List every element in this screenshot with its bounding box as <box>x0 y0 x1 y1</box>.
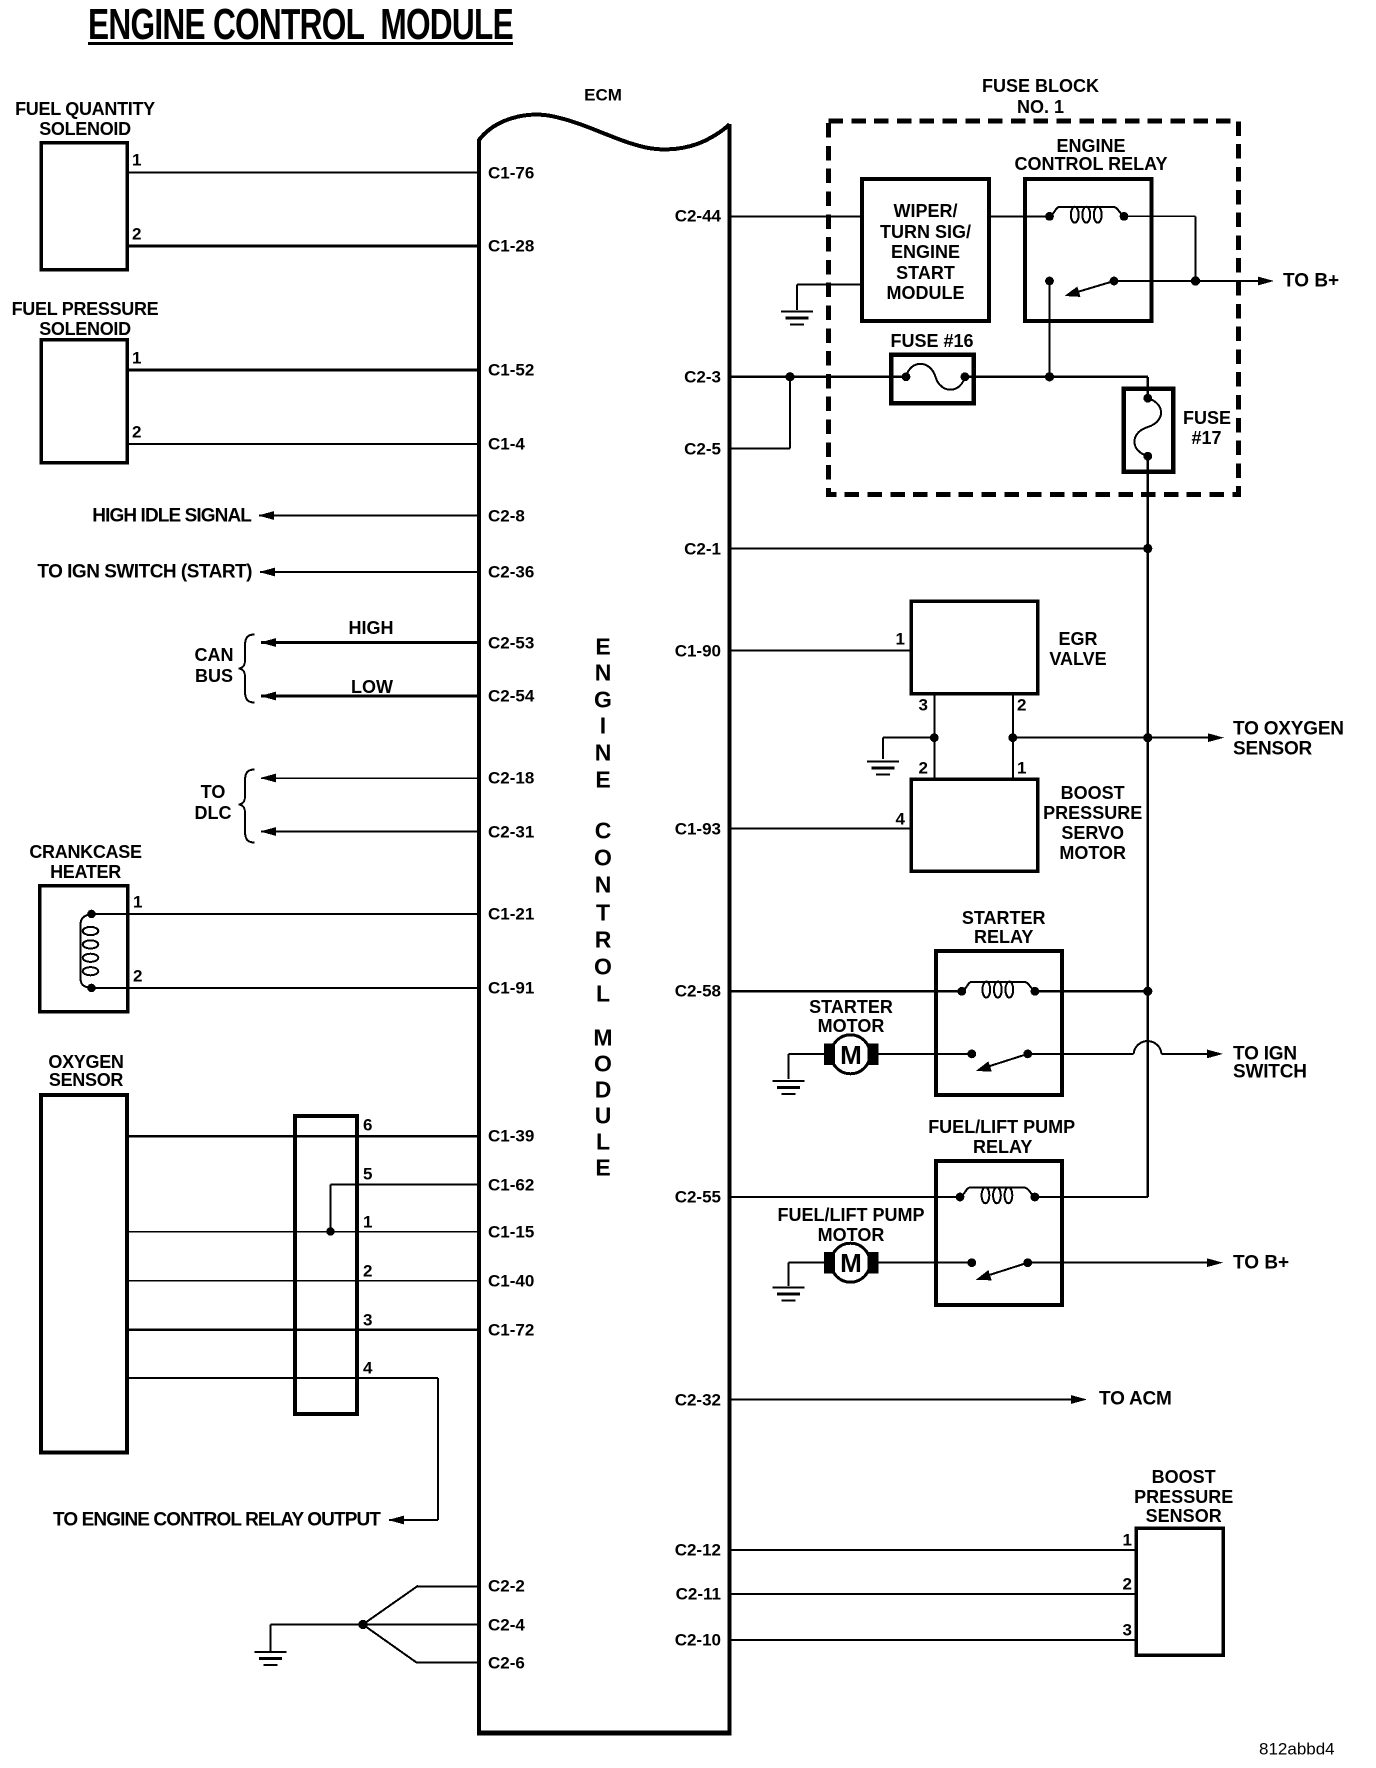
pin 1 label oxygen connector <box>363 1213 372 1230</box>
vertical text ENGINE CONTROL MODULE <box>595 635 610 658</box>
junction dot fuse wire / relay switch <box>1045 372 1054 381</box>
label FUEL PRESSURE SOLENOID <box>12 300 159 318</box>
wire C2-32 to ACM <box>732 1398 1074 1400</box>
wire C1-76 to fuel quantity solenoid pin 1 <box>127 172 477 174</box>
label FUEL/LIFT PUMP RELAY <box>928 1118 1075 1136</box>
ground symbol bottom left <box>255 1651 287 1653</box>
wire C1-21 to crankcase heater pin 1 <box>92 913 478 915</box>
wire coil to TO B+ junction <box>1124 215 1196 217</box>
ECM pin label C2-12 <box>675 1542 721 1559</box>
label STARTER RELAY <box>962 909 1046 927</box>
arrowhead TO OXYGEN SENSOR <box>1208 733 1224 742</box>
engine control relay box <box>1025 179 1152 321</box>
wire C2-8 high idle signal <box>259 515 477 517</box>
ground symbol EGR <box>867 760 899 762</box>
wiper module ground wire <box>797 283 862 285</box>
fuel pump relay coil <box>960 1188 1035 1198</box>
wire pump coil to trunk corner <box>1035 1196 1148 1198</box>
ECM pin label C2-11 <box>676 1586 721 1603</box>
oxygen sensor box <box>41 1095 127 1453</box>
label OXYGEN SENSOR <box>48 1053 123 1071</box>
pin 1 label fuel quantity solenoid <box>132 152 141 169</box>
label ENGINE CONTROL RELAY <box>1056 137 1125 155</box>
label TO IGN SWITCH <box>1233 1044 1297 1063</box>
pin 4 label servo <box>896 811 905 828</box>
wire C2-31 to DLC <box>261 830 477 832</box>
arrowhead TO B+ <box>1258 277 1274 286</box>
brace CAN bus <box>239 635 255 703</box>
label CRANKCASE HEATER <box>29 843 141 861</box>
ECM pin label C2-18 <box>488 770 534 787</box>
label HIGH IDLE SIGNAL <box>92 506 251 525</box>
pin 6 label oxygen connector <box>363 1117 372 1134</box>
pin 1 label servo <box>1017 760 1026 777</box>
pin 3 label oxygen connector <box>363 1311 372 1328</box>
wire C2-2 <box>417 1585 477 1587</box>
junction dot oxygen pin1/pin5 <box>326 1227 335 1236</box>
EGR pin 2 wire <box>1012 694 1014 780</box>
arrowhead TO B+ lower <box>1207 1258 1223 1267</box>
ECM pin label C2-32 <box>675 1391 721 1408</box>
wire starter motor to switch <box>879 1053 972 1055</box>
wire C1-40 oxygen pin 2 <box>127 1280 477 1282</box>
crankcase heater box <box>40 886 128 1012</box>
ECM pin label C1-90 <box>675 642 721 659</box>
ECM pin label C2-2 <box>488 1578 525 1595</box>
wire C1-62 oxygen pin 5 <box>331 1184 478 1186</box>
junction dot EGR pin3 <box>930 733 939 742</box>
label LOW (CAN) <box>351 678 393 696</box>
wire C2-18 to DLC <box>261 777 477 779</box>
ECM pin label C1-4 <box>488 436 525 453</box>
label WIPER/TURN SIG/ENGINE START MODULE <box>893 202 957 220</box>
arrowhead TO ACM <box>1071 1395 1087 1404</box>
oxygen sensor connector box <box>295 1116 357 1414</box>
label FUSE #16 <box>890 332 973 350</box>
arrowhead TO IGN SWITCH <box>1207 1050 1223 1059</box>
wire starter switch to ign switch with hop <box>1028 1053 1134 1055</box>
ECM pin label C2-3 <box>684 368 721 385</box>
wire C1-93 to servo pin 4 <box>732 827 912 829</box>
fuse #16 element <box>906 364 965 390</box>
brace TO DLC <box>239 770 255 843</box>
label TO OXYGEN SENSOR <box>1233 720 1344 739</box>
label TO ENGINE CONTROL RELAY OUTPUT <box>53 1511 380 1530</box>
pin 4 label oxygen connector <box>363 1360 372 1377</box>
ECM pin label C1-21 <box>488 906 534 923</box>
label TO ACM <box>1099 1390 1172 1409</box>
ECM pin label C1-91 <box>488 980 534 997</box>
ground symbol starter motor <box>773 1080 805 1082</box>
ECM module left edge <box>477 139 481 1733</box>
wire C1-91 to crankcase heater pin 2 <box>92 987 478 989</box>
EGR valve box <box>911 601 1038 694</box>
label BOOST PRESSURE SENSOR <box>1152 1468 1216 1486</box>
wire C2-58 to starter relay coil <box>732 990 962 992</box>
engine control relay coil <box>1050 207 1125 217</box>
pump relay switch <box>967 1258 976 1267</box>
starter motor symbol <box>824 1044 835 1066</box>
wire C2-54 CAN low <box>261 695 477 698</box>
wire C2-44 to wiper module <box>732 215 863 217</box>
label TO IGN SWITCH (START) <box>37 563 252 582</box>
label ECM <box>584 87 622 104</box>
ECM pin label C1-76 <box>488 164 534 181</box>
ECM module right edge <box>728 124 732 1733</box>
ground junction dot <box>358 1620 367 1629</box>
ECM pin label C2-1 <box>684 540 721 557</box>
ECM pin label C1-39 <box>488 1128 534 1145</box>
title underline <box>88 42 513 45</box>
fuel pump motor symbol <box>824 1252 835 1274</box>
ECM pin label C1-40 <box>488 1272 534 1289</box>
ECM pin label C2-58 <box>675 983 721 1000</box>
crankcase heater pin 1 junction dot <box>87 910 96 919</box>
wire C2-10 to boost sensor pin3 <box>732 1639 1137 1641</box>
fuse block no.1 dashed border <box>829 121 1239 495</box>
pin 2 label oxygen connector <box>363 1262 372 1279</box>
ECM pin label C2-44 <box>675 208 721 225</box>
label STARTER MOTOR <box>809 998 893 1016</box>
wire C2-55 to pump relay coil <box>732 1196 961 1198</box>
junction dot C2-3/C2-5 <box>785 372 794 381</box>
EGR pin 3 wire <box>933 694 935 780</box>
crankcase heater coil element <box>81 914 93 988</box>
pin 2 label crankcase heater <box>133 968 142 985</box>
junction dot trunk / oxygen arrow <box>1143 733 1152 742</box>
pin 2 label boost sensor <box>1123 1576 1132 1593</box>
wire EGR pin2 to oxygen sensor arrow <box>1013 737 1148 739</box>
wire pump motor to switch <box>879 1262 972 1264</box>
boost pressure servo motor box <box>911 779 1038 871</box>
stub pin 5 to pin 1 junction <box>330 1185 332 1232</box>
label FUSE BLOCK NO. 1 <box>982 77 1099 95</box>
label FUEL QUANTITY SOLENOID <box>15 100 155 118</box>
pin 3 label boost sensor <box>1123 1622 1132 1639</box>
ECM pin label C2-54 <box>488 688 534 705</box>
wire C1-4 to fuel pressure solenoid pin 2 <box>127 443 477 445</box>
arrowhead C2-18 to DLC <box>260 774 276 783</box>
ground symbol wiper module <box>781 310 813 312</box>
wire C2-6 <box>416 1662 477 1664</box>
ECM module wavy top edge <box>479 115 730 150</box>
ground wire bottom left <box>271 1624 364 1626</box>
vertical trunk wire <box>1147 549 1149 1198</box>
fuse #17 box <box>1124 389 1174 472</box>
pin 1 label fuel pressure solenoid <box>132 350 141 367</box>
label BOOST PRESSURE SERVO MOTOR <box>1061 784 1125 802</box>
ECM pin label C1-93 <box>675 820 721 837</box>
junction dot C2-1/trunk <box>1143 544 1152 553</box>
wire C2-4 <box>363 1624 477 1626</box>
arrowhead C2-31 to DLC <box>260 827 276 836</box>
pin 1 label crankcase heater <box>133 894 142 911</box>
engine control relay switch <box>1045 277 1054 286</box>
ECM module bottom edge <box>477 1731 732 1736</box>
junction dot trunk / starter coil <box>1143 987 1152 996</box>
ECM pin label C2-8 <box>488 507 525 524</box>
pin 3 label EGR <box>919 697 928 714</box>
label CAN BUS <box>195 646 234 664</box>
ECM pin label C2-36 <box>488 564 534 581</box>
wire C1-90 to EGR pin 1 <box>732 649 912 651</box>
wire C2-36 to ign switch start <box>260 571 477 573</box>
title ENGINE CONTROL MODULE <box>88 1 513 50</box>
fuel quantity solenoid box <box>41 143 127 270</box>
pin 2 label EGR <box>1017 697 1026 714</box>
fuse #16 box <box>891 355 974 404</box>
wire fuse17 down to C2-1 junction <box>1147 456 1149 548</box>
wire C2-1 <box>732 547 1148 549</box>
arrowhead CAN high <box>260 638 276 647</box>
ground symbol pump motor <box>773 1286 805 1288</box>
arrowhead to engine control relay output <box>388 1516 404 1525</box>
pin 2 label servo <box>919 760 928 777</box>
wire C2-11 to boost sensor pin2 <box>732 1593 1137 1595</box>
wire pump switch to TO B+ <box>1028 1262 1209 1264</box>
label TO DLC <box>201 783 226 801</box>
label HIGH (CAN) <box>349 619 394 637</box>
label TO B+ <box>1283 272 1339 291</box>
label FUEL/LIFT PUMP MOTOR <box>778 1206 925 1224</box>
label EGR VALVE <box>1058 630 1097 648</box>
wire wiper module to relay coil <box>989 215 1050 217</box>
label TO B+ lower <box>1233 1253 1289 1272</box>
fuse #17 element <box>1134 398 1161 456</box>
starter relay switch <box>967 1050 976 1059</box>
wire C2-3 to fuse 16 <box>732 376 907 378</box>
wire C1-52 to fuel pressure solenoid pin 1 <box>127 369 477 372</box>
ground wire EGR <box>883 737 934 739</box>
wire C1-39 oxygen pin 6 <box>127 1135 477 1137</box>
pin 1 label EGR <box>896 631 905 648</box>
ECM pin label C2-53 <box>488 634 534 651</box>
starter relay box <box>936 951 1062 1095</box>
junction dot TO B+ <box>1191 276 1200 285</box>
arrowhead to ign switch start <box>259 568 275 577</box>
wire C1-15 oxygen pin 1 <box>127 1231 477 1233</box>
pin 5 label oxygen connector <box>363 1166 372 1183</box>
wire C2-53 CAN high <box>261 641 477 644</box>
wire starter coil to trunk <box>1035 990 1148 992</box>
ECM pin label C1-62 <box>488 1176 534 1193</box>
wire relay switch to TO B+ <box>1114 280 1258 282</box>
wire C1-72 oxygen pin 3 <box>127 1328 477 1330</box>
footer code 812abbd4 <box>1259 1741 1335 1758</box>
pin 2 label fuel quantity solenoid <box>132 226 141 243</box>
arrowhead CAN low <box>260 692 276 701</box>
ECM pin label C2-31 <box>488 823 534 840</box>
ECM pin label C1-72 <box>488 1321 534 1338</box>
fuel pressure solenoid box <box>41 340 127 463</box>
starter relay coil <box>962 982 1035 992</box>
wire fuse16 to fuse17 <box>965 376 1148 378</box>
wire relay switch left to fuse wire junction <box>1049 281 1051 377</box>
fuel/lift pump relay box <box>936 1161 1062 1305</box>
ECM pin label C2-10 <box>675 1632 721 1649</box>
pump motor ground wire <box>789 1262 825 1264</box>
ECM pin label C1-28 <box>488 238 534 255</box>
ECM pin label C2-5 <box>684 440 721 457</box>
ECM pin label C2-6 <box>488 1654 525 1671</box>
pin 1 label boost sensor <box>1123 1532 1132 1549</box>
wire C2-5 riser <box>732 448 791 450</box>
ECM pin label C1-15 <box>488 1223 534 1240</box>
wiper/turn sig/engine start module box <box>862 179 989 321</box>
wire C2-12 to boost sensor pin1 <box>732 1549 1137 1551</box>
label FUSE #17 <box>1183 409 1231 427</box>
ECM pin label C1-52 <box>488 362 534 379</box>
arrowhead high idle signal <box>258 511 274 520</box>
pin 2 label fuel pressure solenoid <box>132 424 141 441</box>
boost pressure sensor box <box>1136 1528 1223 1655</box>
ECM pin label C2-4 <box>488 1616 525 1633</box>
junction dot EGR pin2 <box>1008 733 1017 742</box>
ECM pin label C2-55 <box>675 1189 721 1206</box>
crankcase heater pin 2 junction dot <box>87 984 96 993</box>
wire oxygen pin 4 to engine control relay output <box>127 1377 438 1379</box>
starter motor ground wire <box>789 1053 825 1055</box>
wire C1-28 to fuel quantity solenoid pin 2 <box>127 245 477 248</box>
